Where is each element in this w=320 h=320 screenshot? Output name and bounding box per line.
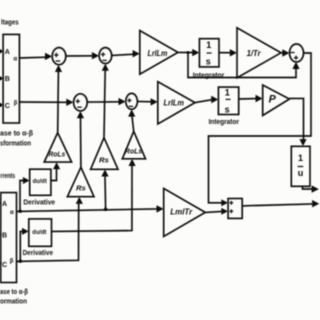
svg-text:RoLs: RoLs bbox=[125, 147, 143, 156]
svg-text:ase to α-β: ase to α-β bbox=[0, 287, 28, 296]
svg-text:β: β bbox=[14, 101, 18, 107]
svg-text:du/dt: du/dt bbox=[32, 229, 47, 236]
svg-text:RoLs: RoLs bbox=[48, 150, 65, 159]
svg-text:Integrator: Integrator bbox=[193, 70, 225, 79]
svg-text:s: s bbox=[225, 105, 230, 115]
svg-text:A: A bbox=[5, 49, 10, 56]
svg-text:sformation: sformation bbox=[0, 138, 31, 147]
svg-text:ormation: ormation bbox=[0, 297, 27, 306]
svg-text:ase to α-β: ase to α-β bbox=[0, 128, 33, 137]
svg-text:C: C bbox=[2, 262, 7, 269]
svg-text:α: α bbox=[10, 210, 14, 216]
svg-text:Derivative: Derivative bbox=[23, 198, 55, 207]
svg-text:LrlLm: LrlLm bbox=[148, 48, 168, 58]
svg-text:B: B bbox=[2, 233, 7, 240]
svg-text:1/Tr: 1/Tr bbox=[247, 49, 262, 58]
svg-text:P: P bbox=[269, 94, 277, 106]
svg-text:s: s bbox=[206, 56, 211, 66]
svg-text:LmlTr: LmlTr bbox=[170, 207, 193, 216]
svg-text:ltages: ltages bbox=[1, 18, 19, 27]
svg-text:1: 1 bbox=[206, 40, 211, 50]
svg-text:C: C bbox=[5, 103, 10, 110]
svg-text:A: A bbox=[2, 201, 7, 208]
svg-text:Integrator: Integrator bbox=[209, 117, 240, 126]
svg-text:u: u bbox=[298, 168, 304, 178]
svg-text:du/dt: du/dt bbox=[33, 178, 48, 185]
svg-text:α: α bbox=[14, 57, 18, 63]
svg-text:Derivative: Derivative bbox=[23, 248, 53, 257]
svg-text:LrlLm: LrlLm bbox=[164, 97, 185, 107]
svg-text:Rs: Rs bbox=[99, 156, 109, 165]
svg-text:β: β bbox=[10, 259, 14, 265]
svg-text:B: B bbox=[5, 76, 10, 83]
svg-text:rrents: rrents bbox=[0, 171, 15, 180]
svg-text:Rs: Rs bbox=[76, 184, 86, 193]
svg-text:1: 1 bbox=[298, 153, 303, 163]
svg-text:1: 1 bbox=[225, 87, 230, 97]
